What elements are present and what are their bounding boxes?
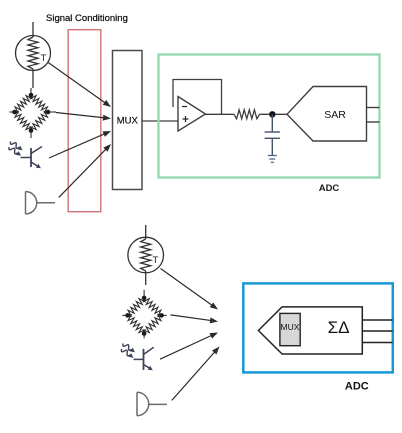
sensor phototransistor (bottom) bbox=[134, 347, 154, 370]
light arrow 1 into phototransistor (bottom) bbox=[123, 344, 135, 353]
sensor microphone (top) bbox=[26, 192, 56, 215]
ADC green box (SAR) bbox=[159, 55, 380, 178]
arrow microphone to MUX bbox=[59, 144, 111, 197]
op-amp buffer bbox=[178, 97, 206, 132]
light arrow 2 into phototransistor (top) bbox=[9, 147, 21, 156]
arrow microphone to SD ADC bbox=[172, 347, 220, 401]
svg-text:ADC: ADC bbox=[319, 183, 340, 194]
sensor wheatstone bridge (top) bbox=[10, 88, 57, 138]
arrow thermistor to SD ADC bbox=[161, 269, 219, 310]
svg-text:MUX: MUX bbox=[281, 322, 300, 332]
sensor phototransistor (top) bbox=[21, 147, 43, 168]
SAR output wire 1 bbox=[367, 107, 380, 109]
signal conditioning red box bbox=[68, 30, 101, 212]
sigma-delta converter block bbox=[258, 307, 362, 354]
arrow bridge to SD ADC bbox=[171, 315, 219, 324]
light arrow 1 into phototransistor (top) bbox=[10, 142, 22, 151]
svg-text:SAR: SAR bbox=[324, 109, 346, 121]
sensor thermistor (bottom) bbox=[128, 225, 164, 285]
svg-text:Signal Conditioning: Signal Conditioning bbox=[46, 13, 128, 24]
svg-text:T: T bbox=[153, 255, 159, 266]
svg-text:ΣΔ: ΣΔ bbox=[328, 318, 350, 337]
op-amp feedback wire bbox=[173, 80, 222, 115]
ground symbol bbox=[268, 156, 277, 163]
SD output wire 3 bbox=[362, 342, 392, 344]
svg-text:T: T bbox=[41, 53, 47, 64]
arrow phototransistor to MUX bbox=[49, 131, 111, 158]
capacitor C1 bbox=[265, 114, 280, 155]
wire op-amp output bbox=[206, 113, 235, 115]
SAR block bbox=[287, 87, 367, 142]
arrow phototransistor to SD ADC bbox=[160, 333, 218, 360]
resistor R1 bbox=[234, 110, 260, 119]
light arrow 2 into phototransistor (bottom) bbox=[121, 349, 133, 358]
sensor wheatstone bridge (bottom) bbox=[122, 290, 167, 339]
ADC blue box (sigma-delta) bbox=[243, 283, 392, 372]
wire MUX output to op-amp bbox=[142, 120, 178, 122]
sensor thermistor (top) bbox=[16, 22, 51, 88]
node junction dot bbox=[269, 111, 275, 117]
SD output wire 2 bbox=[362, 330, 392, 332]
wire resistor to SAR bbox=[260, 113, 288, 115]
arrow thermistor to MUX bbox=[48, 62, 112, 107]
svg-text:ADC: ADC bbox=[345, 381, 369, 393]
SD output wire 1 bbox=[362, 319, 392, 321]
MUX block bbox=[113, 51, 143, 190]
sensor microphone (bottom) bbox=[137, 392, 167, 415]
internal MUX block bbox=[280, 313, 300, 345]
arrow bridge to MUX bbox=[56, 113, 111, 121]
svg-text:MUX: MUX bbox=[117, 116, 139, 127]
SAR output wire 2 bbox=[367, 121, 380, 123]
